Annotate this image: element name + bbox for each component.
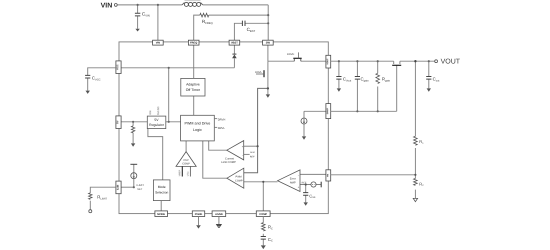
pin MODE (bottom) [155, 211, 168, 217]
svg-text:COMP: COMP [182, 163, 190, 166]
terminal VIN [114, 4, 117, 7]
svg-text:FB: FB [326, 174, 329, 177]
wire R_gate stems [377, 61, 379, 111]
node junction COMP pin branch [262, 181, 264, 183]
svg-text:FREQ: FREQ [190, 42, 197, 45]
capacitor C_Vout [336, 77, 341, 80]
ground C_C [261, 245, 266, 249]
wire DRVH fet to VOUT pin [301, 60, 326, 62]
wire output FET gate lead [396, 65, 398, 111]
wire pin2 to adaptive off timer [193, 45, 195, 78]
wire VCC pin to C_VCC [88, 68, 116, 76]
wire VIN rail left [117, 4, 182, 6]
node junction top rail at pin1 [157, 4, 159, 6]
wire ILIM internal [121, 186, 134, 188]
svg-text:OVP: OVP [183, 159, 189, 162]
svg-text:Off Timer: Off Timer [186, 88, 201, 92]
node junction bus / C_gate [356, 110, 358, 112]
SECTION: IC pin boxes [116, 40, 331, 216]
svg-text:Regulator: Regulator [149, 123, 165, 127]
pin 5V (left) [116, 116, 121, 129]
wire pulldown resistor stem [132, 122, 134, 144]
transistor Q1 output PFET gate bar [392, 64, 401, 66]
wire SW rail to DRVH fet [268, 60, 294, 62]
wire bootstrap diode vertical [233, 45, 235, 68]
svg-text:REF: REF [250, 156, 255, 159]
SECTION: external bottom [199, 217, 264, 246]
svg-text:DRVL: DRVL [255, 71, 262, 74]
svg-text:PWM and Drive: PWM and Drive [184, 122, 210, 126]
node junction rail / R_gate [377, 60, 379, 62]
wire COMP to R_C [262, 217, 264, 223]
svg-text:AMP: AMP [290, 182, 296, 185]
node junction bus / R_gate [377, 110, 379, 112]
wire pwm logic to OVP comp [185, 141, 187, 152]
svg-text:VCC: VCC [117, 64, 120, 70]
wire C_SS stems [305, 185, 307, 203]
wire OVP input stub left [181, 166, 183, 176]
node junction ILIM wire [133, 186, 135, 188]
wire pin4 SW internal vertical [267, 45, 269, 61]
svg-text:I LIMIT: I LIMIT [136, 184, 144, 187]
SECTION: top input network [117, 5, 268, 40]
op-amp OVP COMP [176, 152, 196, 167]
wire R_LIMIT lower stem [89, 201, 91, 210]
wire OVP input stub right [189, 166, 191, 176]
svg-text:VREF: VREF [179, 169, 182, 176]
transistor DRVL (low side FET) [263, 70, 265, 77]
source REF (voltage reference) [311, 182, 316, 187]
svg-text:Limit COMP: Limit COMP [221, 161, 236, 164]
capacitor C_out [426, 77, 431, 80]
capacitor C_BST [242, 21, 245, 26]
wire VCC internal rail to bootstrap diode [121, 67, 234, 69]
ground tick REF [320, 182, 322, 188]
svg-text:Selection: Selection [155, 190, 168, 194]
ground pulldown [131, 143, 135, 146]
node junction SW vertical / R_FREQ [267, 14, 269, 16]
resistor pulldown (5V line) [131, 126, 134, 133]
pin SW (top) [263, 40, 274, 45]
wire R_FREQ net [194, 15, 269, 40]
svg-text:5V: 5V [154, 118, 159, 122]
svg-text:ILIM: ILIM [117, 185, 120, 190]
inductor L (input) [182, 2, 203, 6]
wire C_VIN branch [137, 5, 139, 29]
ground gate current source [302, 136, 306, 139]
svg-text:AGND: AGND [215, 213, 223, 216]
block PWM and Drive Logic [181, 115, 215, 141]
node junction SW source sense [267, 87, 269, 89]
block 5V Regulator [147, 116, 166, 129]
node junction SW vertical / C_BST [267, 22, 269, 24]
svg-text:VBST: VBST [231, 42, 238, 45]
wire C_gate stems [356, 61, 358, 111]
wire VOUT rail [331, 60, 435, 62]
svg-text:VOUT: VOUT [441, 59, 461, 66]
wire VCC to 5V regulator feed [168, 68, 170, 122]
svg-text:Adaptive: Adaptive [186, 83, 200, 87]
ground C_VIN [135, 29, 139, 32]
ground C_out [427, 88, 431, 91]
block Mode Selection [153, 180, 170, 201]
svg-text:VIN: VIN [156, 42, 160, 45]
wire current source ILIMIT stems [133, 164, 135, 187]
pin FREQ (top) [188, 40, 199, 45]
wire gate pin internal [304, 110, 326, 112]
svg-text:COMP: COMP [259, 213, 267, 216]
wire C_BST net [234, 23, 268, 40]
diode bootstrap D1 [232, 53, 236, 55]
node junction error amp plus / C_SS [305, 183, 307, 185]
current source ILIMIT [130, 163, 137, 165]
capacitor C_gate [355, 77, 360, 80]
resistor R_gate [376, 73, 380, 83]
ground AGND (signal) [217, 224, 222, 227]
wire pin4 SW vertical [267, 5, 269, 40]
svg-text:VTH: VTH [187, 171, 190, 176]
wire C_C to ground [262, 239, 264, 245]
resistor R2 (divider bottom) [414, 178, 418, 185]
wire R_C to C_C [262, 234, 264, 237]
wire DRVL channel [267, 61, 269, 88]
wire FB pin to divider [331, 174, 416, 176]
wire AGND to ground [218, 217, 220, 225]
wire C_VCC lower stem [87, 78, 89, 91]
block Adaptive Off Timer [181, 78, 205, 96]
svg-text:VIN: VIN [101, 3, 113, 10]
cropped label above inductor [185, 0, 201, 2]
svg-text:SET: SET [137, 188, 142, 191]
pin COMP (bottom) [256, 211, 270, 217]
wire gate bus [331, 110, 397, 112]
node junction rail / C_out [428, 60, 430, 62]
svg-text:Error: Error [290, 178, 296, 181]
capacitor C_VIN [135, 13, 140, 16]
SECTION: internal wires [121, 45, 326, 211]
pin VIN (top) [153, 40, 164, 45]
svg-text:PGND: PGND [195, 213, 203, 216]
wire C_Vout stems [338, 61, 340, 88]
wire DRVL source to ground [267, 88, 269, 94]
wire CL comp plus input [244, 145, 258, 147]
capacitor C_C [261, 237, 266, 240]
svg-text:MODE: MODE [157, 213, 165, 216]
wire current sense net [244, 88, 268, 172]
current source gate drive [301, 118, 307, 124]
ground PGND [196, 225, 201, 228]
pin FB (right) [326, 170, 331, 181]
resistor R_FREQ [200, 13, 209, 17]
op-amp Current Limit COMP [227, 141, 244, 160]
wire error amp plus to REF [300, 184, 321, 186]
svg-text:DRVH: DRVH [218, 118, 226, 121]
svg-text:VOUT: VOUT [326, 58, 329, 65]
wire error amp minus to FB pin [300, 173, 326, 175]
transistor DRVH (high side FET) [294, 59, 301, 61]
ground DRVL source [266, 94, 270, 97]
node junction CL plus / sense line [257, 145, 259, 147]
wire current limit comp output [209, 141, 227, 150]
SECTION: external right / output [331, 61, 435, 198]
wire feedback divider vertical [414, 61, 416, 198]
wire pin1 VIN vertical [157, 5, 159, 40]
wire DRVH stub [214, 118, 217, 120]
pin DRVP (right) [326, 104, 331, 119]
svg-text:DRVH: DRVH [287, 53, 294, 56]
op-amp Error AMP [278, 170, 300, 192]
node junction rail / divider [414, 60, 416, 62]
node junction divider / FB [414, 174, 416, 176]
terminal R_LIMIT bottom [89, 210, 92, 213]
SECTION: external left [88, 68, 116, 210]
node junction VCC / regulator feed [168, 67, 170, 69]
svg-text:COMP: COMP [235, 179, 243, 182]
ground C_SS [304, 202, 308, 205]
pin PGND (bottom) [192, 211, 204, 217]
svg-text:PWM: PWM [236, 176, 242, 179]
wire CL comp minus input [244, 153, 250, 155]
wire pwm comp output [203, 141, 227, 178]
svg-text:DRVL: DRVL [218, 127, 226, 130]
resistor R1 (divider top) [414, 136, 418, 145]
wire adaptive off timer to pwm logic [193, 96, 195, 115]
svg-text:5VLDO: 5VLDO [157, 107, 160, 115]
pin ILIM (left) [116, 181, 121, 194]
capacitor C_SS [303, 193, 308, 196]
wire error amp output to pwm comp minus [244, 181, 278, 183]
resistor R_LIMIT [89, 193, 92, 200]
svg-text:Limit: Limit [250, 151, 255, 154]
svg-text:SW: SW [266, 42, 271, 45]
wire PGND to ground [198, 217, 200, 226]
node junction top rail at C_VIN [137, 4, 139, 6]
svg-text:5V: 5V [117, 120, 120, 123]
ground C_VCC [86, 91, 90, 94]
wire VIN rail right of inductor [203, 4, 268, 6]
pin AGND (bottom) [212, 211, 226, 217]
wire C_out stems [428, 61, 430, 88]
IC U1 outline [119, 42, 328, 214]
svg-text:DRVP: DRVP [326, 108, 329, 115]
wire output FET stubs [394, 61, 400, 64]
wire COMP pin vertical [262, 182, 264, 211]
svg-text:Mode: Mode [158, 185, 166, 189]
ground divider (open arrow) [413, 198, 417, 201]
node junction rail / C_gate [356, 60, 358, 62]
wire DRVL stub [214, 126, 217, 128]
wire gate current source stems [303, 111, 305, 136]
wire 5V line to regulator [121, 121, 180, 123]
pin VBST (top) [229, 40, 240, 45]
ground C_Vout [337, 88, 341, 91]
node junction 5V line / VCC feed [168, 121, 170, 123]
capacitor C_VCC [85, 75, 90, 78]
pin VCC (left) [116, 61, 121, 74]
svg-text:Logic: Logic [193, 128, 202, 132]
op-amp PWM COMP [227, 168, 244, 188]
resistor R_C [262, 223, 266, 231]
node junction rail / C_Vout [338, 60, 340, 62]
terminal VOUT [435, 60, 438, 63]
wire regulator to mode selection [148, 129, 163, 180]
pin VOUT (right) [326, 55, 331, 68]
svg-text:VIN: VIN [149, 110, 152, 114]
wire mode selection to MODE pin [160, 201, 162, 211]
node junction 5V line / pulldown [132, 121, 134, 123]
wire ILIM pin to R_LIMIT [90, 187, 116, 193]
